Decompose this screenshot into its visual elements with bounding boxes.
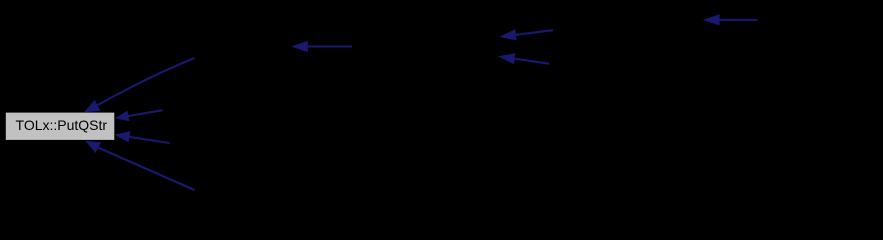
wire edge into lower right side of TOLx::PutQStr <box>115 131 170 143</box>
wire curved edge from upper-right hidden caller into top of TOLx::PutQStr <box>84 58 194 112</box>
wire curved edge from lower-right hidden caller into bottom of TOLx::PutQStr <box>85 141 194 190</box>
wire upper diagonal edge between hidden nodes <box>499 29 553 40</box>
node TOLx::PutQStr (current function, grey filled box) <box>6 113 115 140</box>
wire edge into upper right side of TOLx::PutQStr <box>115 110 163 121</box>
wire lower diagonal edge between hidden nodes <box>498 53 549 64</box>
wire top-right horizontal edge between hidden nodes <box>703 14 758 25</box>
svg-text:TOLx::PutQStr: TOLx::PutQStr <box>16 117 108 133</box>
wire mid horizontal edge between hidden nodes <box>291 41 352 52</box>
